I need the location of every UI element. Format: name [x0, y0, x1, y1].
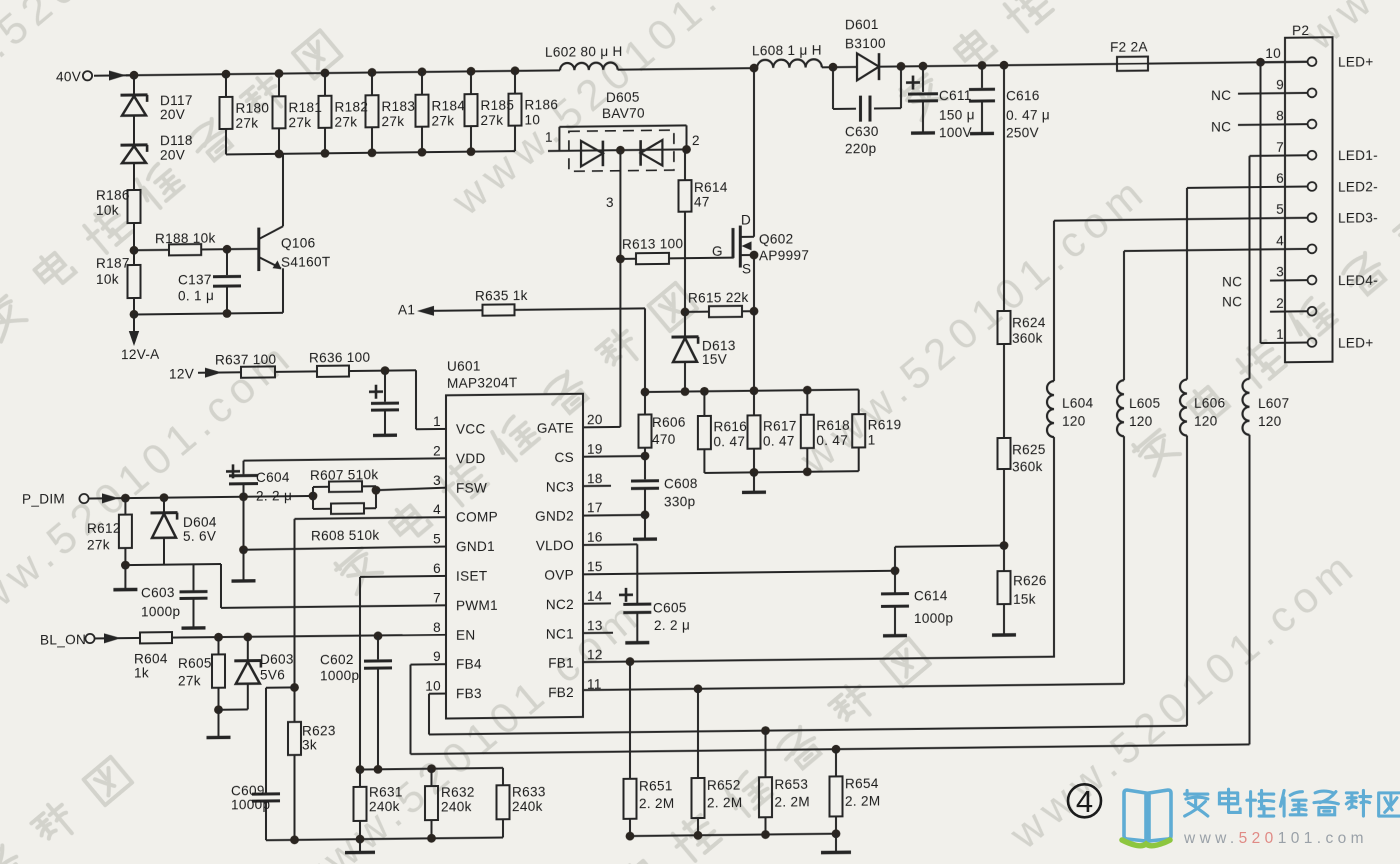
- svg-text:40V: 40V: [56, 69, 81, 84]
- node P_DIM input terminal: [22, 491, 89, 507]
- svg-text:27k: 27k: [178, 673, 201, 688]
- resistor R623 3k: [288, 721, 336, 839]
- ground below C608: [633, 515, 657, 540]
- wire P2 pin 3 NC stub: [1270, 279, 1308, 281]
- wire R625 to C614 junction: [895, 546, 1004, 571]
- wire C604 bottom to GND1 node: [239, 497, 248, 555]
- resistor R607 510k: [310, 467, 378, 496]
- svg-text:12V-A: 12V-A: [121, 347, 160, 362]
- svg-text:VLDO: VLDO: [536, 538, 574, 553]
- svg-text:R188 10k: R188 10k: [155, 231, 216, 247]
- svg-text:LED3-: LED3-: [1338, 210, 1378, 225]
- svg-text:2. 2M: 2. 2M: [845, 793, 880, 808]
- svg-text:20V: 20V: [160, 107, 185, 122]
- svg-text:R631: R631: [369, 784, 403, 799]
- svg-text:D601: D601: [845, 17, 879, 32]
- svg-text:LED+: LED+: [1338, 54, 1374, 69]
- svg-text:10: 10: [525, 112, 541, 127]
- svg-text:5V6: 5V6: [260, 667, 285, 682]
- svg-text:C605: C605: [653, 600, 687, 615]
- svg-text:10: 10: [1265, 46, 1281, 61]
- svg-text:FB1: FB1: [548, 656, 574, 671]
- svg-text:27k: 27k: [335, 114, 358, 129]
- wire FB2 pin 11 line: [583, 680, 1124, 695]
- svg-text:NC1: NC1: [546, 626, 574, 641]
- svg-text:4: 4: [433, 502, 441, 517]
- pin 15 label OVP: [544, 559, 602, 583]
- svg-text:R617: R617: [763, 418, 797, 433]
- resistor R653 2.2M: [759, 730, 810, 834]
- wire VDD pin 2 route: [244, 458, 447, 474]
- svg-text:VCC: VCC: [456, 421, 486, 436]
- svg-text:1: 1: [433, 414, 441, 429]
- svg-text:18: 18: [587, 471, 603, 486]
- wire GND2 pin stub: [583, 514, 645, 517]
- wire P2 pin 6 stub: [1187, 187, 1308, 188]
- svg-text:D: D: [741, 212, 751, 227]
- capacitor C614 1000p: [881, 570, 953, 636]
- svg-text:AP9997: AP9997: [759, 248, 809, 264]
- capacitor C137 0.1u: [178, 249, 241, 314]
- node R187 bottom junction: [130, 310, 139, 319]
- zener diode D118 20V: [121, 133, 193, 190]
- logo text www.520101.com: [1183, 830, 1368, 847]
- svg-text:0. 47: 0. 47: [763, 433, 795, 448]
- svg-text:L606: L606: [1194, 395, 1225, 410]
- svg-text:L605: L605: [1129, 396, 1160, 411]
- diode D605 BAV70 dual: [545, 89, 700, 211]
- svg-text:1k: 1k: [134, 665, 149, 680]
- svg-text:R181: R181: [289, 100, 323, 115]
- svg-text:P2: P2: [1292, 23, 1309, 38]
- svg-text:C137: C137: [178, 272, 212, 287]
- svg-text:R623: R623: [302, 723, 336, 738]
- svg-text:C604: C604: [256, 470, 290, 485]
- svg-text:2: 2: [692, 133, 700, 148]
- svg-text:250V: 250V: [1006, 125, 1039, 140]
- svg-text:10: 10: [425, 679, 441, 694]
- svg-text:R612: R612: [87, 521, 121, 536]
- svg-text:R637 100: R637 100: [215, 352, 276, 368]
- svg-text:2. 2M: 2. 2M: [775, 794, 810, 809]
- svg-text:10k: 10k: [96, 272, 119, 287]
- svg-text:13: 13: [587, 618, 603, 633]
- inductor L604 120: [1047, 220, 1094, 657]
- wire ISET pin 6 route: [360, 576, 446, 770]
- resistor R185 27k: [465, 71, 515, 152]
- pin 3 label FSW: [433, 472, 487, 496]
- svg-text:0. 1 μ: 0. 1 μ: [178, 288, 214, 303]
- svg-text:R186: R186: [525, 97, 559, 112]
- resistor R632 240k: [425, 768, 475, 838]
- wire R612 D604 bottom node: [121, 560, 221, 570]
- svg-text:BAV70: BAV70: [602, 106, 645, 121]
- inductor L605 120: [1117, 251, 1160, 684]
- svg-text:D118: D118: [160, 133, 193, 148]
- wire FB3 pin 10 route: [429, 685, 1187, 739]
- wire LED+ vertical pin10 to pin1: [1261, 62, 1308, 343]
- svg-text:220p: 220p: [845, 141, 876, 156]
- svg-text:NC: NC: [1222, 294, 1242, 309]
- svg-text:R654: R654: [845, 776, 879, 791]
- svg-text:P_DIM: P_DIM: [22, 491, 65, 506]
- svg-text:2. 2 μ: 2. 2 μ: [654, 618, 690, 633]
- ground below right bus: [821, 834, 851, 853]
- svg-text:C611: C611: [939, 88, 972, 103]
- svg-text:27k: 27k: [289, 115, 312, 130]
- svg-text:R618: R618: [816, 418, 850, 433]
- wire to 12V-A rail arrow: [121, 314, 160, 362]
- logo text jiadian weixiu ziliao wang blue: [1185, 789, 1400, 816]
- pin 10 label FB3: [425, 678, 482, 702]
- svg-text:1000p: 1000p: [320, 668, 359, 683]
- connector P2 pin circles: [1308, 57, 1317, 347]
- svg-text:NC: NC: [1211, 119, 1231, 134]
- svg-text:MAP3204T: MAP3204T: [447, 375, 517, 391]
- svg-text:R633: R633: [512, 784, 546, 799]
- wire branch to C609: [266, 687, 295, 792]
- svg-text:L607: L607: [1258, 396, 1289, 411]
- svg-text:470: 470: [652, 432, 676, 447]
- svg-text:L604: L604: [1062, 395, 1094, 410]
- svg-text:1000p: 1000p: [914, 611, 953, 626]
- svg-text:7: 7: [433, 590, 441, 605]
- wire A1 column to sense bus: [644, 308, 646, 392]
- svg-text:2. 2M: 2. 2M: [639, 796, 674, 811]
- svg-text:0. 47: 0. 47: [713, 434, 745, 449]
- resistor R651 2.2M: [624, 661, 675, 836]
- svg-text:COMP: COMP: [456, 510, 498, 525]
- node 40V input terminal: [56, 69, 92, 84]
- pin 1 label VCC: [433, 413, 485, 437]
- svg-text:5: 5: [433, 532, 441, 547]
- resistor R619: [852, 389, 901, 471]
- zener diode D603 5V6: [219, 636, 294, 709]
- svg-text:C614: C614: [914, 588, 948, 603]
- svg-text:C602: C602: [320, 652, 354, 667]
- svg-text:R607 510k: R607 510k: [310, 467, 378, 483]
- svg-text:S4160T: S4160T: [281, 254, 330, 270]
- wire Q106 emitter bottom row: [134, 308, 283, 319]
- pin 4 label COMP: [433, 502, 498, 526]
- svg-text:15V: 15V: [702, 352, 727, 367]
- pin 9 label FB4: [433, 649, 482, 673]
- svg-text:R624: R624: [1012, 315, 1046, 330]
- svg-text:19: 19: [587, 442, 603, 457]
- logo circled figure 4: [1068, 784, 1101, 819]
- svg-text:15k: 15k: [1013, 592, 1036, 607]
- pin 20 label GATE: [537, 412, 603, 436]
- resistor R625 360k: [998, 438, 1046, 550]
- inductor L602 80uH: [545, 44, 623, 71]
- pin 16 label VLDO: [536, 530, 603, 554]
- svg-text:16: 16: [587, 530, 603, 545]
- resistor R614 47: [679, 149, 728, 258]
- wire gate node down to R615 and D613: [684, 258, 686, 312]
- wire COMP pin 4 route: [295, 517, 447, 722]
- svg-text:15: 15: [587, 559, 603, 574]
- resistor R626 15k: [992, 545, 1047, 635]
- inductor L608 1uH: [752, 43, 822, 69]
- wire top rail after L608: [822, 66, 857, 68]
- svg-text:R652: R652: [707, 778, 741, 793]
- svg-text:0. 47 μ: 0. 47 μ: [1006, 107, 1050, 123]
- resistor R652 2.2M: [692, 688, 743, 835]
- svg-text:6: 6: [433, 561, 441, 576]
- wire A1 output with R635: [398, 302, 483, 318]
- ground below sense bus: [742, 472, 766, 492]
- svg-text:LED1-: LED1-: [1338, 148, 1378, 163]
- svg-text:GND2: GND2: [535, 509, 574, 524]
- svg-text:FSW: FSW: [456, 480, 487, 495]
- zener diode D613 15V: [672, 311, 736, 391]
- svg-text:NC: NC: [1211, 88, 1231, 103]
- svg-text:R608 510k: R608 510k: [311, 528, 379, 544]
- svg-text:U601: U601: [447, 359, 481, 374]
- svg-text:5: 5: [1276, 202, 1284, 217]
- svg-text:8: 8: [1276, 108, 1284, 123]
- svg-text:C608: C608: [664, 476, 698, 491]
- node COMP column D603 branch: [290, 683, 299, 692]
- resistor R606 470: [639, 392, 686, 461]
- wire PWM1 pin 7 route: [221, 561, 446, 607]
- capacitor C611 150u 100V: [906, 66, 975, 141]
- resistor R617: [748, 390, 797, 472]
- node BL_ON input terminal: [40, 632, 95, 648]
- svg-text:NC3: NC3: [546, 479, 574, 494]
- pin 11 label FB2: [548, 677, 602, 701]
- connector P2 pin numbers: [1265, 46, 1284, 342]
- svg-text:20V: 20V: [160, 147, 185, 162]
- wire CS pin stub: [583, 455, 645, 458]
- inductor L607 120: [1243, 156, 1290, 745]
- svg-text:2. 2M: 2. 2M: [707, 795, 742, 810]
- svg-text:FB2: FB2: [548, 685, 574, 700]
- svg-text:120: 120: [1062, 414, 1086, 429]
- svg-text:R187: R187: [96, 256, 130, 271]
- svg-text:27k: 27k: [236, 116, 259, 131]
- wire right ground bus: [626, 829, 841, 840]
- wire GND1 pin 5 stub: [244, 547, 447, 550]
- svg-text:240k: 240k: [512, 799, 543, 814]
- fuse F2 2A: [1110, 39, 1148, 71]
- resistor R183 27k: [366, 72, 416, 153]
- svg-text:R186: R186: [96, 188, 130, 203]
- svg-text:27k: 27k: [382, 114, 405, 129]
- svg-text:C630: C630: [845, 124, 879, 139]
- connector P2 body: [1285, 23, 1333, 363]
- svg-text:3: 3: [1276, 264, 1284, 279]
- wire top rail: [126, 70, 560, 75]
- svg-text:R606: R606: [652, 415, 686, 430]
- svg-text:3: 3: [433, 473, 441, 488]
- resistor R182 27k: [319, 73, 369, 154]
- svg-text:R182: R182: [335, 99, 369, 114]
- pin 14 label NC2: [546, 589, 603, 613]
- resistor R615 22k: [681, 290, 759, 318]
- svg-text:5. 6V: 5. 6V: [183, 529, 216, 544]
- wire left ground bus: [266, 833, 503, 845]
- svg-text:A1: A1: [398, 302, 415, 317]
- node 12V filter junction: [381, 366, 390, 375]
- svg-text:R626: R626: [1013, 573, 1047, 588]
- wire BL_ON row to EN pin 8: [95, 629, 447, 643]
- wire 12V input: [169, 366, 241, 382]
- wire 12V to VCC pin 1: [416, 370, 446, 429]
- svg-text:47: 47: [694, 194, 710, 209]
- ground below GND1 node: [232, 550, 256, 581]
- svg-text:R619: R619: [868, 417, 902, 432]
- svg-text:D605: D605: [606, 90, 640, 105]
- wire Q602 source to sense bus: [753, 311, 755, 391]
- resistor R181 27k: [273, 73, 323, 154]
- svg-text:2: 2: [1276, 296, 1284, 311]
- junction dots on top rail: [130, 58, 1265, 80]
- resistor R605 27k: [178, 637, 231, 738]
- text LED channel labels: [1338, 54, 1378, 350]
- resistor R635 1k: [475, 287, 645, 316]
- svg-text:R614: R614: [694, 180, 728, 195]
- svg-text:9: 9: [1276, 77, 1284, 92]
- wire FSW pin 3 stub: [376, 488, 446, 491]
- svg-text:1: 1: [1276, 327, 1284, 342]
- resistor R188 10k: [134, 231, 216, 256]
- resistor R613 100: [620, 236, 733, 265]
- svg-text:12: 12: [587, 647, 603, 662]
- svg-text:R651: R651: [639, 778, 673, 793]
- svg-text:14: 14: [587, 589, 603, 604]
- wire 40V input to top rail with arrow: [94, 70, 134, 80]
- zener diode D117 20V: [121, 75, 193, 146]
- logo open book icon: [1122, 790, 1171, 846]
- resistor R631 240k: [354, 769, 403, 839]
- svg-text:2: 2: [433, 443, 441, 458]
- zener diode D604 5.6V: [151, 497, 217, 565]
- resistor R654 2.2M: [830, 749, 881, 834]
- resistor R184 27k: [416, 71, 466, 152]
- svg-text:NC: NC: [1222, 274, 1242, 289]
- svg-text:LED4-: LED4-: [1338, 273, 1378, 288]
- capacitor 12V filter electrolytic: [369, 370, 399, 435]
- svg-text:3: 3: [606, 195, 614, 210]
- resistor R637 100: [215, 351, 317, 378]
- resistor R636 100: [309, 349, 416, 377]
- svg-text:27k: 27k: [87, 537, 110, 552]
- pin 17 label GND2: [535, 500, 603, 524]
- svg-text:27k: 27k: [481, 113, 504, 128]
- wire P2 pin 8 NC stub: [1238, 123, 1308, 126]
- svg-text:GATE: GATE: [537, 420, 574, 435]
- capacitor C603 1000p: [141, 564, 208, 628]
- op-amp U601 MAP3204T controller IC body: [446, 357, 583, 718]
- svg-text:R636 100: R636 100: [309, 350, 370, 366]
- svg-text:27k: 27k: [432, 113, 455, 128]
- svg-text:6: 6: [1276, 171, 1284, 186]
- svg-text:www.520101.com: www.520101.com: [1183, 830, 1368, 847]
- pin 5 label GND1: [433, 531, 495, 555]
- svg-text:10k: 10k: [96, 203, 119, 218]
- svg-text:360k: 360k: [1012, 331, 1043, 346]
- wire P2 pin 10 stub: [1261, 61, 1308, 64]
- wire current sense bus: [641, 385, 859, 396]
- wire P2 pin 7 stub: [1250, 154, 1308, 157]
- svg-text:12V: 12V: [169, 366, 194, 381]
- svg-text:R653: R653: [775, 777, 809, 792]
- svg-text:150 μ: 150 μ: [939, 107, 975, 122]
- wire top rail fuse to P2 pin 10: [1148, 62, 1308, 64]
- svg-text:D117: D117: [160, 93, 193, 108]
- svg-text:EN: EN: [456, 627, 475, 642]
- capacitor C616 0.47u 250V: [969, 65, 1050, 141]
- svg-text:100V: 100V: [939, 125, 972, 140]
- resistor R187 10k: [96, 250, 141, 315]
- resistor R608 510k: [311, 486, 380, 544]
- capacitor C602 1000p: [320, 636, 392, 770]
- resistor R186 10k: [96, 187, 141, 250]
- svg-text:20: 20: [587, 412, 603, 427]
- pin 12 label FB1: [548, 647, 603, 671]
- wire P2 pin 5 stub: [1054, 218, 1308, 221]
- svg-text:1: 1: [868, 432, 876, 447]
- svg-text:S: S: [742, 261, 751, 276]
- svg-text:LED+: LED+: [1338, 335, 1374, 350]
- svg-text:1000p: 1000p: [231, 797, 270, 812]
- svg-text:CS: CS: [555, 450, 574, 465]
- resistor R612 27k: [87, 498, 132, 566]
- svg-text:F2 2A: F2 2A: [1110, 39, 1148, 54]
- svg-text:VDD: VDD: [456, 451, 486, 466]
- svg-text:8: 8: [433, 620, 441, 635]
- svg-text:R184: R184: [432, 98, 466, 113]
- svg-text:Q106: Q106: [281, 235, 315, 250]
- capacitor C604 2.2u: [226, 464, 292, 504]
- wire FB4 pin 9 route: [411, 655, 1250, 759]
- diode D601 B3100: [845, 17, 886, 81]
- ground below left bus: [345, 839, 375, 853]
- inductor L606 120: [1180, 187, 1225, 725]
- wire NC2 pin 14 stub: [583, 602, 611, 604]
- pin 8 label EN: [433, 619, 475, 642]
- resistor R186 10: [509, 70, 559, 151]
- wire NC3 pin 18 stub: [583, 485, 611, 487]
- pin 19 label CS: [555, 442, 603, 466]
- pin 20 GATE label marker: [583, 426, 585, 428]
- svg-text:LED2-: LED2-: [1338, 179, 1378, 194]
- resistor R604 1k: [134, 632, 172, 680]
- svg-text:240k: 240k: [441, 799, 472, 814]
- svg-text:D603: D603: [260, 652, 294, 667]
- wire sense resistor bottom bus: [704, 467, 858, 478]
- svg-text:L608 1 μ H: L608 1 μ H: [752, 43, 822, 59]
- svg-text:G: G: [712, 244, 723, 259]
- wire R188 to Q106 base: [201, 244, 258, 253]
- wire ISET resistor top bus: [356, 763, 503, 773]
- wire OVP pin 15 line: [583, 566, 899, 578]
- svg-text:1000p: 1000p: [141, 604, 180, 619]
- svg-text:240k: 240k: [369, 799, 400, 814]
- resistor R618: [801, 390, 850, 472]
- pin 18 label NC3: [546, 471, 603, 495]
- svg-text:9: 9: [433, 649, 441, 664]
- wire P2 pin 9 NC stub: [1238, 92, 1308, 95]
- text NC labels: [1211, 88, 1242, 310]
- capacitor C605 2.2u: [619, 573, 690, 643]
- svg-text:GND1: GND1: [456, 539, 495, 554]
- ground below R612: [113, 565, 137, 590]
- svg-text:R613 100: R613 100: [622, 236, 683, 252]
- svg-text:120: 120: [1258, 414, 1282, 429]
- svg-text:L602 80 μ H: L602 80 μ H: [545, 44, 623, 60]
